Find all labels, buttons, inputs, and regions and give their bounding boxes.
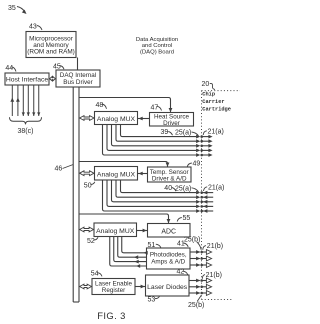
- wire host interface to bus driver double arrow: [50, 77, 56, 81]
- label 39: [161, 129, 173, 136]
- label 55: [177, 215, 190, 222]
- label 48: [96, 102, 107, 109]
- svg-text:Register: Register: [102, 287, 125, 294]
- svg-text:DAQ Internal: DAQ Internal: [60, 72, 96, 79]
- svg-text:47: 47: [151, 104, 159, 111]
- svg-text:Analog MUX: Analog MUX: [96, 228, 135, 235]
- svg-text:Cartridge: Cartridge: [202, 106, 231, 112]
- wire bus to mux3 double arrow: [80, 227, 94, 232]
- svg-text:39: 39: [161, 129, 169, 136]
- svg-text:Carrier: Carrier: [202, 99, 224, 105]
- svg-text:25(a): 25(a): [175, 185, 191, 192]
- label 49: [187, 161, 200, 168]
- svg-text:50: 50: [84, 182, 92, 189]
- svg-text:21(b): 21(b): [207, 243, 223, 250]
- label 45: [53, 64, 64, 71]
- svg-text:Driver: Driver: [163, 120, 180, 127]
- label 25(b) second: [188, 295, 204, 309]
- svg-text:Analog MUX: Analog MUX: [97, 116, 136, 123]
- label 20: [202, 81, 216, 89]
- svg-text:41: 41: [177, 240, 185, 247]
- label 52: [87, 237, 98, 245]
- svg-text:25(b): 25(b): [184, 236, 200, 243]
- wire register to laser diodes with right arrow: [135, 285, 146, 289]
- block laser-enable-register box: [92, 279, 135, 295]
- wire bus to mux1 double arrow: [80, 116, 94, 121]
- label 21(a) second: [204, 185, 225, 192]
- svg-text:25(b): 25(b): [188, 302, 204, 309]
- svg-text:(ROM and RAM): (ROM and RAM): [27, 48, 75, 55]
- svg-text:Host Interface: Host Interface: [6, 77, 49, 84]
- block analog-mux-3 box: [94, 223, 137, 237]
- wire bus to mux2 double arrow: [80, 171, 94, 176]
- svg-text:53: 53: [148, 296, 156, 303]
- label 35 with arrow: [8, 5, 27, 14]
- label 50: [84, 182, 95, 190]
- label 25(a) second: [175, 185, 199, 192]
- svg-text:20: 20: [202, 81, 210, 88]
- block host-interface box: [5, 73, 49, 85]
- block analog-mux-1 box: [95, 112, 138, 125]
- wires 3 laser beam lines to cartridge: [189, 278, 212, 295]
- label 54: [91, 271, 102, 278]
- block U-microprocessor box: [26, 32, 76, 58]
- label 38(c): [18, 128, 34, 135]
- svg-text:52: 52: [87, 238, 95, 245]
- label 25(a) first: [175, 130, 199, 137]
- svg-text:Analog MUX: Analog MUX: [97, 171, 136, 178]
- svg-text:21(a): 21(a): [208, 185, 224, 192]
- svg-text:Driver & A/D: Driver & A/D: [152, 176, 187, 183]
- svg-text:21(a): 21(a): [208, 129, 224, 136]
- svg-text:43: 43: [29, 24, 37, 31]
- block ADC box: [148, 224, 191, 238]
- svg-text:54: 54: [91, 271, 99, 278]
- block analog-mux-2 box: [95, 167, 138, 181]
- label 51: [148, 242, 161, 249]
- block temp-sensor-driver box: [148, 167, 192, 183]
- svg-text:21(b): 21(b): [206, 272, 222, 279]
- wire bus to ADC top: [79, 214, 170, 224]
- label 42: [177, 269, 188, 276]
- wire temp sensor to mux2 with left arrow: [138, 172, 148, 176]
- wire mux3 to ADC with right arrow: [137, 229, 148, 233]
- block laser-diodes box: [146, 275, 190, 296]
- wires 4 photodiode signal lines to mux3: [110, 237, 148, 268]
- svg-text:Photodiodes,: Photodiodes,: [150, 252, 187, 259]
- title text DAQ board: [136, 37, 178, 55]
- cartridge dotted boundary: [202, 91, 241, 300]
- svg-text:48: 48: [96, 102, 104, 109]
- wires 5 heater lines mux1 to cartridge: [103, 125, 213, 157]
- svg-text:44: 44: [5, 65, 13, 72]
- wires 5 temp sensor lines mux2 to cartridge: [103, 180, 214, 213]
- label 25(b) first: [184, 236, 201, 250]
- label 41: [177, 240, 188, 247]
- wire bus to temp sensor top: [79, 162, 169, 168]
- label 21(a) first: [203, 129, 224, 136]
- wire bus to heat source driver top: [79, 98, 172, 113]
- caption FIG. 3: [97, 310, 125, 321]
- wire microprocessor to bus driver: [77, 58, 79, 71]
- wire bus to register double arrow: [80, 284, 92, 289]
- svg-text:25(a): 25(a): [175, 130, 191, 137]
- label 46: [55, 165, 74, 173]
- svg-text:and Control: and Control: [142, 43, 172, 49]
- label 53: [148, 296, 160, 303]
- block heat-source-driver box: [150, 113, 194, 127]
- label 43: [29, 24, 42, 31]
- label 44: [5, 65, 16, 72]
- label 47: [151, 104, 162, 111]
- svg-text:Bus Driver: Bus Driver: [63, 79, 92, 86]
- text chip carrier cartridge: [202, 91, 231, 112]
- svg-text:Amps & A/D: Amps & A/D: [151, 259, 185, 266]
- label 40: [164, 185, 176, 192]
- bus vertical DAQ internal bus: [73, 87, 79, 302]
- svg-text:49: 49: [193, 161, 201, 168]
- wire heat source driver to mux1 with left arrow: [138, 117, 150, 121]
- svg-text:ADC: ADC: [161, 228, 176, 235]
- svg-text:38(c): 38(c): [18, 128, 34, 135]
- svg-text:40: 40: [164, 185, 172, 192]
- svg-text:35: 35: [8, 5, 16, 12]
- wires 6 host bus lines: [10, 86, 40, 117]
- svg-text:55: 55: [183, 215, 191, 222]
- brace under host lines: [10, 117, 42, 124]
- svg-text:Chip: Chip: [202, 91, 215, 97]
- svg-text:Laser Diodes: Laser Diodes: [147, 284, 188, 291]
- svg-text:46: 46: [55, 166, 63, 173]
- svg-text:FIG. 3: FIG. 3: [97, 310, 125, 321]
- label 21(b) first: [203, 243, 223, 250]
- block photodiodes box: [147, 248, 191, 269]
- label 21(b) second: [202, 272, 222, 279]
- svg-text:(DAQ) Board: (DAQ) Board: [140, 49, 174, 55]
- block DAQ-internal-bus-driver box: [56, 70, 100, 87]
- wires 3 optical lines cartridge to photodiodes: [190, 250, 212, 268]
